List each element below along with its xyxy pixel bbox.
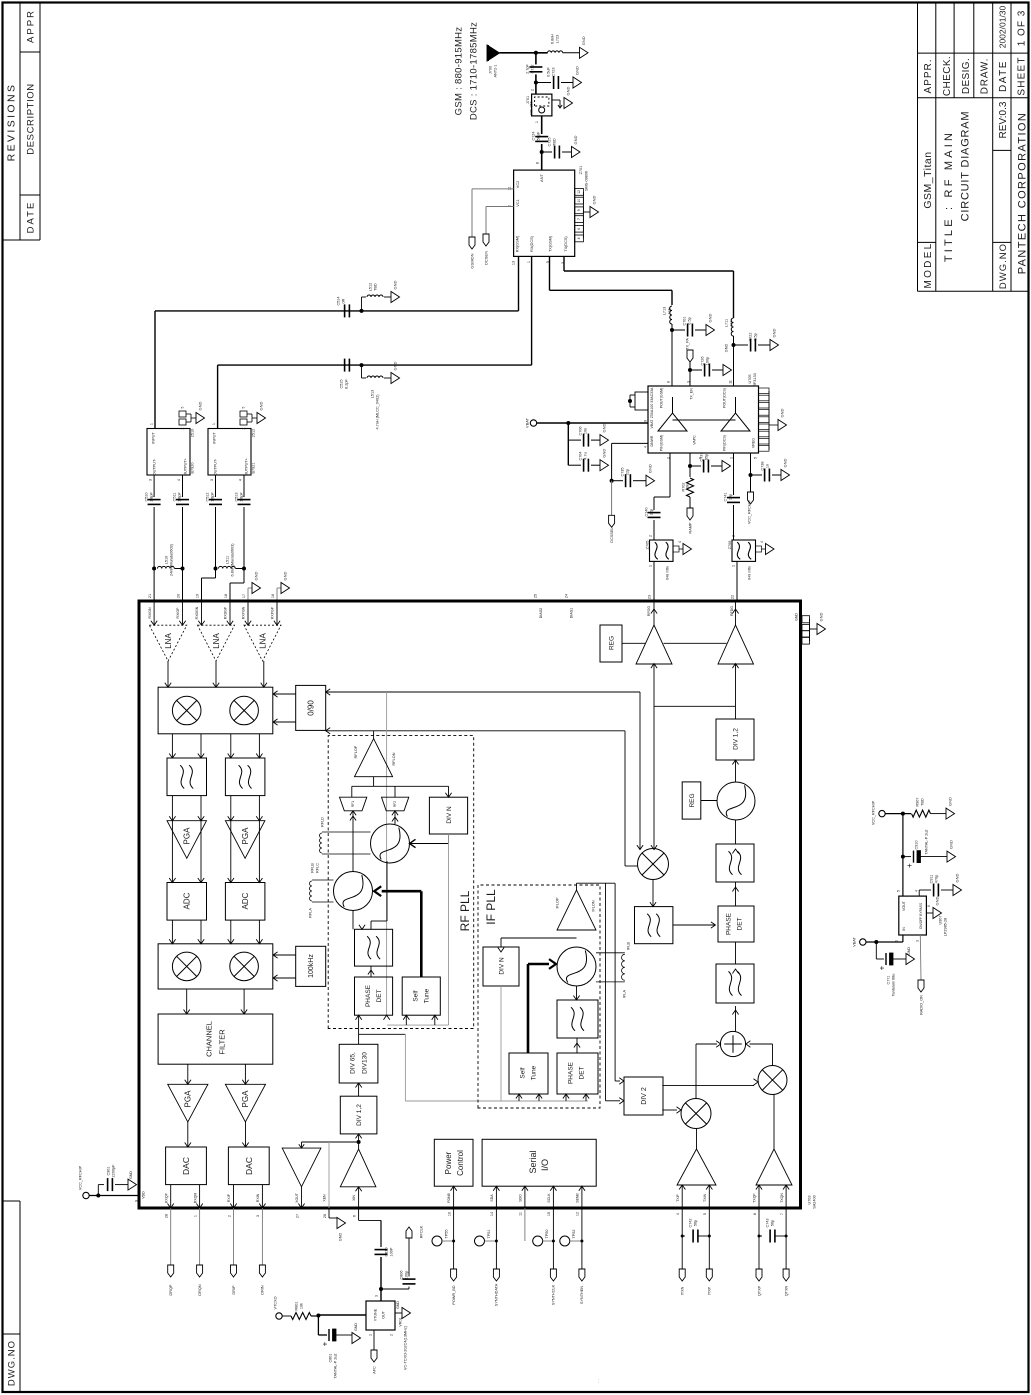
svg-text:18: 18	[224, 594, 228, 598]
svg-text:RXDGP: RXDGP	[224, 606, 228, 619]
svg-text:DCS : 1710-1785MHz: DCS : 1710-1785MHz	[468, 22, 479, 120]
IF phase detector	[557, 1038, 598, 1094]
offset mixer	[638, 849, 669, 880]
svg-text:TP51: TP51	[487, 1229, 491, 1238]
svg-text:MS-156: MS-156	[529, 101, 533, 114]
svg-text:C712: C712	[530, 64, 534, 73]
XTAL buffer amplifiers	[282, 1134, 376, 1218]
title block	[918, 3, 1029, 292]
svg-text:RXDGN: RXDGN	[195, 606, 199, 619]
right wavebox filter2	[716, 942, 754, 1003]
svg-text:1nH: 1nH	[667, 307, 671, 314]
svg-text:VREG: VREG	[751, 438, 755, 448]
svg-text:L511: L511	[225, 556, 229, 564]
IF self tune thick drive	[528, 959, 556, 1053]
svg-text:U907: U907	[938, 915, 942, 924]
svg-text:TP55: TP55	[444, 1229, 448, 1238]
svg-text:RFLD: RFLD	[320, 817, 324, 827]
svg-text:C723: C723	[551, 67, 555, 76]
DIV N block RF	[429, 797, 467, 834]
svg-text:VC2: VC2	[516, 181, 520, 188]
svg-text:0/90: 0/90	[307, 700, 316, 716]
svg-text:RXPGN: RXPGN	[242, 606, 246, 619]
svg-text:L510: L510	[164, 556, 168, 564]
svg-text:DIV 2: DIV 2	[641, 1087, 648, 1105]
svg-text:POUT(GSM): POUT(GSM)	[659, 388, 663, 409]
svg-text:C743: C743	[765, 1218, 769, 1227]
svg-text:GND: GND	[574, 66, 579, 75]
svg-text:IFLB: IFLB	[626, 942, 630, 950]
svg-text:DIV 1,2: DIV 1,2	[732, 728, 739, 750]
svg-text:U705: U705	[748, 374, 752, 383]
svg-text:TANTAL-P 2u2: TANTAL-P 2u2	[924, 829, 928, 854]
svg-text:1nH: 1nH	[729, 319, 733, 326]
wire RX(DCS) to SAW	[218, 256, 532, 428]
svg-text:LNA: LNA	[164, 633, 173, 649]
svg-text:XOUT: XOUT	[295, 1192, 299, 1203]
svg-text:GND: GND	[948, 840, 953, 849]
svg-text:Serial: Serial	[528, 1150, 538, 1173]
svg-text:22p: 22p	[625, 469, 629, 475]
svg-text:1: 1	[535, 121, 539, 123]
svg-text:GND: GND	[392, 361, 397, 370]
svg-text:GND: GND	[707, 313, 712, 322]
svg-text:CHANNEL: CHANNEL	[205, 1021, 214, 1057]
svg-text:RFLOP: RFLOP	[354, 745, 358, 758]
svg-text:VR01: VR01	[398, 1317, 402, 1327]
svg-text:C810: C810	[384, 1247, 388, 1256]
svg-text:GND: GND	[647, 464, 652, 473]
right wavebox filter1	[716, 820, 754, 882]
svg-text:MODEL: MODEL	[923, 241, 934, 288]
svg-text:ANT: ANT	[539, 173, 544, 182]
svg-text:PGA: PGA	[183, 827, 192, 845]
svg-text:GND: GND	[253, 571, 258, 580]
capacitor C806 100p to RFCLK	[379, 1225, 423, 1291]
svg-text:GND: GND	[396, 1301, 400, 1309]
RF LO amplifier RFLOP	[354, 731, 396, 777]
svg-text:9: 9	[643, 420, 647, 422]
svg-text:VAPC: VAPC	[692, 435, 696, 445]
svg-text:C738: C738	[760, 461, 764, 470]
PGA amplifiers row1	[167, 796, 265, 883]
svg-text:5: 5	[703, 1213, 707, 1215]
svg-text:VBAT: VBAT	[852, 937, 856, 947]
inductor L711 1nH	[724, 318, 733, 386]
svg-text:QTXN: QTXN	[784, 1285, 788, 1296]
svg-text:14: 14	[490, 1212, 494, 1216]
IC pins DIAG2 DIAG1	[533, 594, 573, 618]
svg-text:DATE: DATE	[998, 60, 1009, 92]
svg-text:VCC_RFCHIP: VCC_RFCHIP	[747, 499, 751, 524]
svg-text:RXQP: RXQP	[164, 1192, 168, 1203]
svg-text:APPR: APPR	[25, 9, 36, 43]
svg-text:IF PLL: IF PLL	[484, 889, 498, 925]
svg-text:5: 5	[242, 406, 246, 408]
svg-text:DIV 65,: DIV 65,	[349, 1052, 356, 1074]
ADC blocks	[167, 883, 265, 921]
XEN gnd stub	[329, 1208, 346, 1241]
wire reference to RF phase det	[384, 692, 390, 1020]
svg-text:DWG.NO: DWG.NO	[998, 243, 1009, 289]
svg-text:PIN(DCS): PIN(DCS)	[722, 435, 726, 451]
svg-text:ADC: ADC	[241, 892, 250, 909]
resistor R702 to RAMP flag	[681, 453, 693, 533]
DAC output pins	[164, 1185, 265, 1296]
svg-text:C515: C515	[339, 379, 343, 388]
DIV 1,2 block right	[716, 719, 754, 760]
svg-text:RFLC: RFLC	[315, 863, 319, 873]
svg-text:U703: U703	[807, 1195, 811, 1204]
svg-text:2200pF: 2200pF	[111, 1164, 115, 1178]
SAW filter Z706 TX DCS	[728, 535, 774, 601]
Serial IO block	[482, 1139, 596, 1216]
svg-text:C901: C901	[106, 1166, 110, 1175]
svg-text:GND: GND	[779, 408, 784, 417]
svg-text:SCLK: SCLK	[547, 1193, 551, 1203]
control signal GSMON	[469, 189, 514, 269]
wire reference to IF PLL	[359, 1034, 588, 1101]
svg-text:2: 2	[389, 1334, 393, 1336]
svg-text:DCSSEL: DCSSEL	[610, 527, 614, 542]
svg-text:1: 1	[527, 261, 531, 263]
svg-text:4: 4	[760, 541, 764, 543]
svg-text:0.5p: 0.5p	[753, 333, 757, 340]
svg-text:DIV130: DIV130	[361, 1052, 368, 1074]
svg-text:DIAG2: DIAG2	[539, 608, 543, 619]
svg-text:27: 27	[295, 1214, 299, 1218]
svg-text:GND: GND	[771, 328, 776, 337]
svg-text:1 OF 3: 1 OF 3	[1017, 10, 1028, 47]
svg-text:J700: J700	[488, 66, 492, 74]
svg-text:TX(DCS): TX(DCS)	[564, 236, 568, 252]
svg-text:RF3133: RF3133	[753, 373, 757, 387]
DIV 65 DIV130 block	[339, 1044, 378, 1096]
svg-text:GND: GND	[197, 401, 202, 410]
svg-text:TXQN: TXQN	[780, 1193, 784, 1203]
svg-text:Tune: Tune	[530, 1065, 537, 1080]
RF phase detector	[355, 966, 393, 1015]
svg-text:2: 2	[181, 427, 185, 429]
channel filter row waveboxes	[167, 734, 265, 796]
svg-text:TXQP: TXQP	[753, 1193, 757, 1203]
svg-text:C735: C735	[620, 467, 624, 476]
RF self tune block	[402, 977, 440, 1015]
svg-text:DRQN: DRQN	[198, 1284, 202, 1295]
capacitor C741 10p TX DCS	[723, 453, 740, 540]
svg-text:OUTPUT-: OUTPUT-	[213, 458, 217, 475]
svg-text:TBD: TBD	[373, 283, 377, 291]
svg-text:TP52: TP52	[572, 1229, 576, 1238]
svg-text:RF2: RF2	[393, 801, 397, 807]
svg-text:GND: GND	[258, 401, 263, 410]
svg-text:C771: C771	[886, 975, 890, 984]
svg-text:DIV N: DIV N	[446, 806, 453, 824]
svg-text:10n: 10n	[583, 428, 587, 434]
svg-text:1: 1	[149, 423, 153, 425]
svg-text:9: 9	[577, 209, 581, 211]
svg-text:5: 5	[896, 890, 900, 892]
svg-text:C510: C510	[144, 492, 148, 501]
svg-text:I/O: I/O	[540, 1159, 550, 1171]
svg-text:Control: Control	[456, 1150, 465, 1176]
svg-text:RADIO_ON: RADIO_ON	[919, 995, 923, 1015]
svg-text:2: 2	[227, 1215, 231, 1217]
offset mixer output filter	[635, 880, 716, 944]
svg-text:REG: REG	[608, 636, 615, 650]
svg-text:6.8nH: 6.8nH	[550, 34, 554, 44]
svg-text:4: 4	[914, 890, 918, 892]
svg-text:DET: DET	[578, 1066, 585, 1079]
svg-text:B7921: B7921	[251, 463, 255, 474]
svg-text:TANTAL-P 2u2: TANTAL-P 2u2	[333, 1353, 337, 1378]
XIN clock network C810 100p	[359, 1208, 394, 1289]
svg-text:DESCRIPTION: DESCRIPTION	[25, 83, 36, 155]
svg-text:Z705: Z705	[645, 541, 649, 550]
svg-text:GND: GND	[354, 1323, 358, 1331]
RF buffer trapezoids RF1 RF2	[340, 777, 452, 816]
svg-text:4: 4	[238, 479, 242, 481]
node frequency note	[453, 22, 479, 120]
VCC_RFCHIP to IC pin 9	[78, 1164, 145, 1202]
svg-text:28: 28	[165, 1214, 169, 1218]
LNA amplifiers	[149, 625, 281, 661]
first mixer block	[158, 687, 273, 734]
block 100kHz	[273, 946, 326, 986]
svg-text:GND: GND	[282, 571, 287, 580]
capacitor C723 0.5uF to gnd	[534, 66, 582, 89]
capacitor C742 56p	[679, 1208, 712, 1295]
IF pll feedback arrows	[501, 986, 589, 1101]
svg-text:FILTER: FILTER	[218, 1029, 227, 1055]
svg-text:22: 22	[730, 595, 734, 599]
DIV 2 block	[624, 1077, 663, 1115]
svg-text:L711: L711	[724, 319, 728, 327]
PA gnd pin row	[759, 388, 787, 451]
IF PLL dashed box	[478, 885, 600, 1108]
svg-text:LNA: LNA	[212, 633, 221, 649]
svg-text:OUTPUT+: OUTPUT+	[183, 457, 187, 476]
svg-text:C742: C742	[688, 1218, 692, 1227]
IC right gnd pins	[795, 612, 826, 644]
svg-text:OUTPUT-: OUTPUT-	[152, 458, 156, 475]
Power Control block	[434, 1139, 473, 1216]
svg-text:CHECK.: CHECK.	[942, 56, 953, 96]
svg-text:L713: L713	[662, 307, 666, 315]
svg-text:DRAW.: DRAW.	[980, 58, 991, 94]
svg-text:C737: C737	[699, 452, 703, 461]
svg-text:PHASE: PHASE	[365, 984, 372, 1007]
svg-text:2510: 2510	[190, 429, 194, 437]
svg-text:56pF: 56pF	[536, 131, 540, 140]
svg-text:15: 15	[547, 1212, 551, 1216]
svg-text:23: 23	[647, 595, 651, 599]
svg-text:DWG.NO: DWG.NO	[6, 1340, 17, 1386]
svg-text:DAC: DAC	[181, 1157, 191, 1175]
svg-text:6: 6	[927, 905, 931, 907]
capacitor C712 2.7pF	[525, 53, 542, 94]
flag RADIO_ON	[918, 935, 924, 1015]
svg-text:10p: 10p	[728, 494, 732, 500]
svg-text:TBD: TBD	[552, 138, 556, 146]
svg-text:PHASE: PHASE	[567, 1061, 574, 1084]
svg-text:IN: IN	[902, 927, 906, 931]
svg-text:SDO: SDO	[519, 1194, 523, 1202]
antenna J700	[487, 45, 500, 78]
svg-text:11: 11	[519, 1212, 523, 1216]
svg-text:2.7pF: 2.7pF	[525, 63, 529, 73]
svg-text:2512: 2512	[251, 429, 255, 437]
PGA amplifiers row2	[168, 1064, 266, 1122]
svg-text:PGA: PGA	[184, 1090, 193, 1108]
svg-text:GND: GND	[338, 1233, 342, 1242]
VREG pin wire C738 1n VCC_RFCHIP	[747, 453, 789, 524]
svg-text:DRIN: DRIN	[261, 1285, 265, 1295]
inductor L510 24nH shunt	[152, 543, 184, 601]
svg-text:RFLB: RFLB	[310, 863, 314, 873]
connector J701 MS-156	[526, 86, 573, 115]
capacitor C724 56pF	[531, 116, 548, 152]
svg-text:B7920: B7920	[190, 463, 194, 474]
PA left decoupling box	[628, 392, 648, 410]
svg-text:DRQP: DRQP	[169, 1284, 173, 1295]
svg-text:GND: GND	[954, 873, 959, 882]
svg-text:C512: C512	[205, 492, 209, 501]
IF loop filter wavebox	[557, 986, 598, 1038]
svg-text:1.8pF: 1.8pF	[177, 491, 181, 501]
svg-text:PIN(GSM): PIN(GSM)	[659, 435, 663, 452]
svg-text:26: 26	[323, 1214, 327, 1218]
svg-text:GND: GND	[565, 86, 570, 95]
svg-text:0.5uF: 0.5uF	[546, 66, 550, 76]
svg-text:9: 9	[134, 1200, 138, 1202]
svg-text:APPR.: APPR.	[923, 58, 934, 93]
svg-text:DIAG1: DIAG1	[570, 608, 574, 619]
svg-text:C513: C513	[234, 492, 238, 501]
RF pll feedback wires	[356, 834, 449, 1044]
capacitor C706 10n to gnd	[568, 423, 608, 447]
regulator pin6 gnd	[926, 896, 941, 918]
RF VCO low	[334, 811, 373, 911]
svg-text:C514: C514	[336, 296, 340, 305]
revisions table	[3, 3, 41, 241]
capacitor C740 22p TX GSM	[644, 453, 670, 540]
svg-text:VBAT: VBAT	[524, 417, 529, 428]
DIV 1,2 block	[340, 1096, 377, 1134]
inductor L512 TBD to gnd	[360, 280, 400, 312]
wire TX(DCS) route	[564, 256, 734, 318]
svg-text:INPUT: INPUT	[151, 432, 155, 444]
svg-text:PHASE: PHASE	[725, 912, 732, 935]
svg-text:RF PLL: RF PLL	[458, 890, 472, 931]
svg-text:L513: L513	[370, 390, 374, 398]
svg-text:DNWR: DNWR	[650, 435, 654, 446]
svg-text:C722: C722	[748, 332, 752, 341]
inductor L513 4.7nH to gnd	[360, 361, 400, 429]
svg-text:+: +	[905, 863, 914, 868]
svg-text:POWR_BD: POWR_BD	[452, 1285, 456, 1304]
svg-text:GND: GND	[947, 797, 952, 806]
VCC_RFCHIP regulator feed	[871, 800, 911, 825]
svg-text:C740: C740	[644, 507, 648, 516]
svg-text:100p: 100p	[404, 1271, 408, 1279]
svg-text:GND: GND	[818, 612, 823, 621]
svg-text:IFLA: IFLA	[622, 990, 626, 998]
svg-text:8: 8	[666, 381, 670, 383]
REG block right	[682, 782, 717, 819]
svg-text:RFLON: RFLON	[392, 752, 396, 765]
RF VCO high	[371, 811, 449, 863]
svg-text:4: 4	[577, 237, 581, 239]
svg-text:16: 16	[271, 594, 275, 598]
svg-text:CIRCUIT DIAGRAM: CIRCUIT DIAGRAM	[959, 111, 971, 222]
svg-text:VBAT: VBAT	[650, 419, 654, 429]
svg-text:13: 13	[511, 261, 515, 265]
svg-text:4: 4	[678, 541, 682, 543]
svg-text:SDA: SDA	[490, 1194, 494, 1202]
capacitor C910 tantalum 2u2	[901, 814, 956, 868]
svg-text:Power: Power	[444, 1151, 453, 1174]
svg-text:649 mttk: 649 mttk	[747, 566, 751, 580]
svg-text:XIN: XIN	[352, 1195, 356, 1201]
svg-text:1n: 1n	[765, 464, 769, 468]
svg-text:Tune: Tune	[423, 988, 430, 1003]
SAW filter Z705 TX GSM	[645, 535, 691, 601]
svg-text:Z701: Z701	[579, 166, 583, 175]
svg-text:VC1: VC1	[516, 199, 520, 206]
svg-text:RXIP: RXIP	[227, 1193, 231, 1202]
svg-text:C724: C724	[531, 131, 535, 140]
wire antenna to L723	[500, 51, 548, 55]
svg-text:56p: 56p	[693, 1220, 697, 1226]
svg-text:REV:0.3: REV:0.3	[998, 101, 1009, 138]
svg-text:TP50: TP50	[545, 1229, 549, 1238]
inductor L511 6.8nH shunt	[202, 543, 247, 601]
adder block	[720, 1006, 745, 1057]
svg-text:REG: REG	[689, 793, 696, 807]
svg-text:AFC: AFC	[372, 1366, 376, 1374]
TX output amplifiers top	[636, 601, 754, 850]
svg-text:1: 1	[212, 423, 216, 425]
svg-text:SYNTHEN: SYNTHEN	[580, 1286, 584, 1304]
svg-text:SHEET: SHEET	[1017, 56, 1028, 95]
tx input amplifiers	[677, 1095, 792, 1186]
IF self tune block	[509, 1053, 548, 1094]
svg-text:1.8pF: 1.8pF	[149, 491, 153, 501]
capacitor C515 8.2pF in RX DCS line	[339, 359, 349, 389]
svg-text:TX_EN: TX_EN	[689, 388, 693, 400]
svg-text:65p: 65p	[704, 454, 708, 460]
svg-text:DRIP: DRIP	[232, 1285, 236, 1295]
svg-text:ADC: ADC	[183, 892, 192, 909]
svg-text:+: +	[320, 1341, 329, 1346]
svg-text:1: 1	[731, 565, 735, 567]
svg-text:10k: 10k	[685, 484, 689, 490]
svg-text:RXPGP: RXPGP	[271, 606, 275, 619]
svg-text:6.8nH(Murata0603): 6.8nH(Murata0603)	[230, 543, 234, 577]
LNA outputs to first mixers	[165, 661, 267, 687]
IF VCO	[557, 947, 596, 986]
capacitor C704 4.7u to gnd	[568, 440, 608, 472]
svg-text:C741: C741	[723, 492, 727, 501]
svg-text:RX(GSM): RX(GSM)	[515, 235, 519, 252]
capacitor C743 56p	[756, 1208, 789, 1296]
switch ground pins	[575, 189, 599, 242]
svg-text:10: 10	[577, 199, 581, 203]
svg-text:GND: GND	[782, 458, 787, 467]
svg-text:GND: GND	[907, 947, 911, 955]
svg-text:7: 7	[577, 218, 581, 220]
